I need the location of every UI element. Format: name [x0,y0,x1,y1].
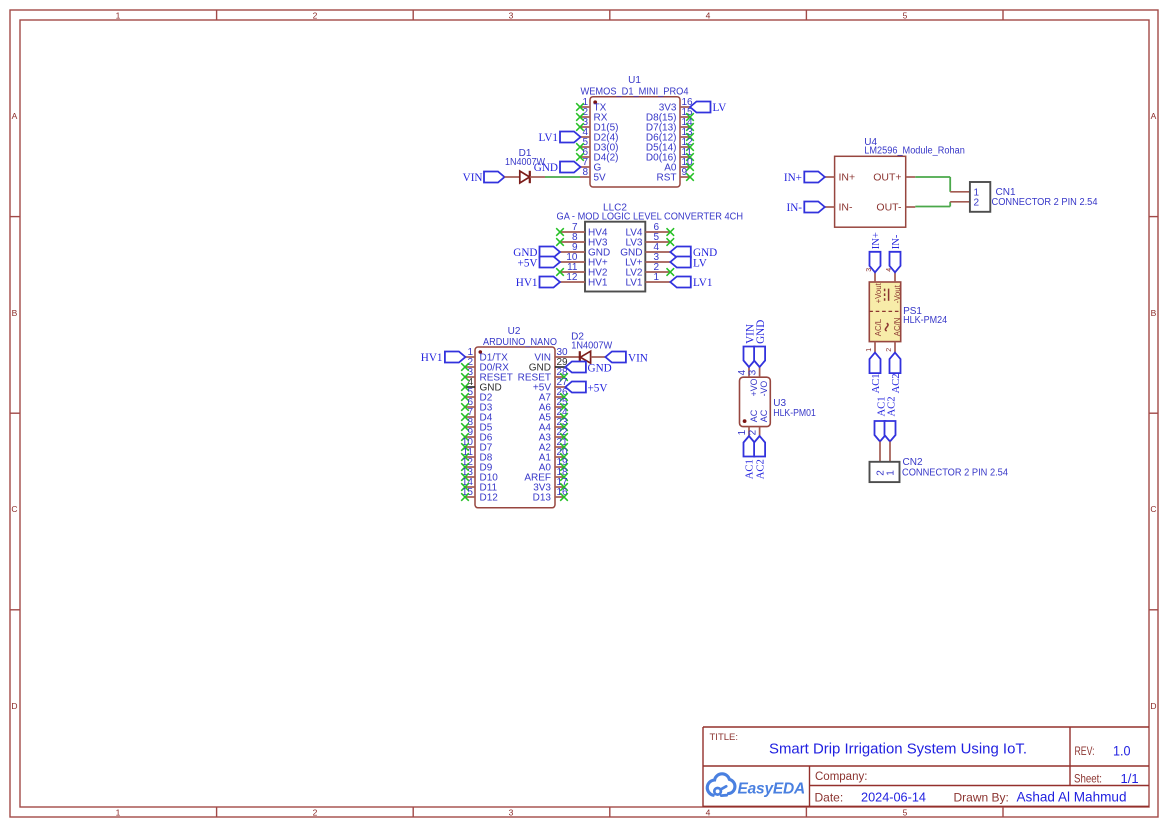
frame column labels bottom [116,808,908,818]
svg-text:5: 5 [903,11,908,21]
svg-text:1N4007W: 1N4007W [505,157,546,168]
U1 pin 14 D7(13) [646,117,694,133]
U1 pin 9 RST [657,167,694,183]
LLC2 pin 4 GND [620,242,670,258]
net flag HV1 at LLC2 pin 12 [516,277,560,290]
svg-text:OUT-: OUT- [876,202,902,214]
svg-text:1/1: 1/1 [1121,771,1139,786]
svg-text:LV1: LV1 [625,278,642,289]
net flag GND above U3 [754,320,767,367]
U3 pin 2 stub [748,427,760,436]
svg-text:C: C [1150,504,1156,514]
svg-text:1: 1 [866,348,873,352]
svg-text:HV1: HV1 [588,278,608,289]
U2 pin 26 A7 [539,387,568,403]
U1 pin 11 D0(16) [646,147,694,163]
svg-text:AC/L: AC/L [874,318,883,336]
U1 pin 3 D1(5) [576,117,618,133]
U2 pin 1 D1/TX [465,347,508,363]
svg-text:C: C [11,504,17,514]
net flag LV1 at LLC2 pin 1 [670,277,712,290]
svg-text:HV1: HV1 [516,277,538,289]
svg-text:2: 2 [974,198,980,209]
power module U3 HLK-PM01 [740,377,817,426]
U1 pin 4 D2(4) [580,127,619,143]
U1 pin 16 3V3 [659,97,693,113]
wire 5V net (green) D1 to U1 pin 8 [545,176,580,178]
U1 pin 13 D6(12) [646,127,694,143]
U2 pin 24 A5 [539,407,568,423]
EasyEDA logo [707,774,805,798]
svg-text:4: 4 [737,369,748,375]
title block [703,727,1149,807]
svg-text:+5V: +5V [588,383,608,395]
PS1 pin 1 stub [866,342,875,353]
net flag +5V at LLC2 pin 10 [518,257,560,270]
svg-text:IN+: IN+ [839,172,856,184]
U2 pin 28 RESET [518,367,568,383]
svg-text:B: B [12,308,18,318]
svg-text:16: 16 [557,487,569,498]
frame row labels right [1150,111,1156,711]
svg-text:AC2: AC2 [755,459,766,479]
net flag LV at LLC2 pin 3 [670,257,707,270]
U2 pin 22 A3 [539,427,568,443]
U1 pin 1 TX [576,97,606,113]
svg-text:-Vout: -Vout [893,284,902,303]
net flag AC1 below PS1 [870,353,883,394]
frame row labels left [11,111,17,711]
svg-text:1: 1 [737,429,748,435]
svg-text:HLK-PM24: HLK-PM24 [903,315,947,326]
LLC2 pin 9 GND [560,242,610,258]
U2 pin 15 D12 [461,487,498,503]
diode D1 1N4007W [505,148,546,183]
U2 pin 11 D8 [461,447,493,463]
LLC2 pin 1 LV1 [625,272,670,288]
U2 pin 21 A2 [539,437,568,453]
U2 pin 18 AREF [524,467,568,483]
U2 pin 20 A1 [539,447,568,463]
diode D2 1N4007W [571,332,613,364]
power module PS1 HLK-PM24 [869,282,947,342]
connector CN1 CONNECTOR 2 PIN 2.54 [970,182,1098,212]
svg-text:2024-06-14: 2024-06-14 [861,791,926,805]
svg-text:REV:: REV: [1075,746,1095,758]
U2 pin 5 D2 [461,387,493,403]
svg-text:D13: D13 [533,493,552,504]
U2 pin 13 D10 [461,467,498,483]
U2 pin 2 D0/RX [461,357,509,373]
wire OUT+ green vertical [949,177,951,192]
U4 pin IN+ [825,172,855,184]
svg-text:Drawn By:: Drawn By: [954,791,1009,805]
svg-text:8: 8 [582,167,588,178]
U2 pin 7 D4 [461,407,493,423]
svg-text:Date:: Date: [815,791,844,805]
svg-text:Smart Drip Irrigation System U: Smart Drip Irrigation System Using IoT. [769,741,1027,758]
U2 pin 6 D3 [461,397,493,413]
net flag LV1 at U1 pin 4 [539,132,581,145]
svg-text:1: 1 [886,470,897,476]
svg-text:AC/N: AC/N [893,318,902,337]
LLC2 pin 7 HV4 [556,222,608,238]
PS1 isolation divider [869,310,900,312]
svg-text:LV1: LV1 [693,277,712,289]
svg-text:LV: LV [693,258,707,270]
svg-text:CONNECTOR 2 PIN 2.54: CONNECTOR 2 PIN 2.54 [992,197,1098,208]
svg-text:U2: U2 [508,326,521,337]
svg-text:2: 2 [886,348,893,352]
svg-text:LV1: LV1 [539,132,558,144]
svg-text:WEMOS_D1_MINI_PRO4: WEMOS_D1_MINI_PRO4 [581,86,689,97]
LLC2 pin 5 LV3 [625,232,674,248]
svg-text:2: 2 [313,11,318,21]
svg-text:+VO: +VO [749,378,759,396]
net flag IN- at U4 [786,202,824,215]
net flag GND at U2 pin 29 [565,362,611,375]
net flag AC2 below U3 [754,436,766,479]
net flag AC1 above CN2 [875,396,888,441]
module U4 LM2596_Module_Rohan [835,137,965,227]
net flag GND at U1 pin 7 [534,162,581,175]
svg-text:D12: D12 [480,493,499,504]
wire D1 cathode (red segment) [530,176,545,178]
svg-text:GND: GND [755,320,767,344]
wire AC1 flag to CN2 pin 2 [879,442,881,462]
svg-text:AC: AC [749,409,759,422]
svg-text:VIN: VIN [463,172,483,184]
U1 pin 6 D4(2) [576,147,618,163]
svg-text:1: 1 [116,808,121,818]
svg-text:4: 4 [706,808,711,818]
svg-text:A: A [1151,111,1157,121]
svg-text:1: 1 [654,272,660,283]
U2 pin 27 +5V [533,377,568,393]
wire D2 anode to VIN flag [591,356,606,358]
svg-text:AC: AC [759,409,769,422]
U1 pin 2 RX [576,107,608,123]
svg-text:AC2: AC2 [886,396,897,416]
LLC2 pin 2 LV2 [625,262,674,278]
svg-text:A: A [12,111,18,121]
wire OUT- green horizontal [915,206,950,208]
svg-text:1N4007W: 1N4007W [571,340,613,351]
svg-text:HV1: HV1 [421,352,443,364]
U2 pin 16 D13 [533,487,568,503]
svg-text:Ashad Al Mahmud: Ashad Al Mahmud [1017,789,1127,805]
svg-text:D: D [11,701,17,711]
svg-text:1: 1 [116,11,121,21]
svg-text:3: 3 [748,369,759,375]
U2 pin 23 A4 [539,417,568,433]
svg-text:+5V: +5V [518,258,538,270]
svg-text:ARDUINO_NANO: ARDUINO_NANO [483,337,557,348]
net flag IN+ above PS1 [870,232,883,272]
U1 pin 8 5V [580,167,606,183]
U2 pin 19 A0 [539,457,568,473]
svg-text:5: 5 [903,808,908,818]
PS1 DC symbol [885,289,889,301]
U4 pin IN- [825,202,853,214]
U2 pin 8 D5 [461,417,493,433]
U2 pin 10 D7 [461,437,493,453]
net flag IN+ at U4 [784,172,825,185]
net flag AC2 above CN2 [885,396,898,441]
U2 pin 30 VIN [534,347,579,363]
net flag VIN above U3 [744,324,757,367]
frame column labels top [116,11,908,21]
U1 pin 7 G [580,157,602,173]
svg-text:9: 9 [682,167,688,178]
U3 pin 1 stub [737,427,749,436]
U2 pin 9 D6 [461,427,493,443]
svg-text:LM2596_Module_Rohan: LM2596_Module_Rohan [864,146,965,157]
wire CN1 pin2 stub [950,201,970,203]
U2 pin 14 D11 [461,477,497,493]
svg-text:EasyEDA: EasyEDA [738,781,806,798]
net flag GND at LLC2 pin 4 [670,247,717,260]
U2 pin 29 GND [529,357,568,373]
svg-text:12: 12 [566,272,578,283]
wire VIN flag to D1 anode [505,176,520,178]
U2 pin 25 A6 [539,397,568,413]
net flag IN- above PS1 [890,234,903,272]
svg-text:IN+: IN+ [784,172,802,184]
svg-text:IN-: IN- [891,234,902,249]
IC U2 ARDUINO_NANO [475,326,557,508]
svg-text:Sheet:: Sheet: [1074,772,1102,786]
svg-text:5V: 5V [594,173,607,184]
U2 pin 12 D9 [461,457,493,473]
module LLC2 GA-MOD logic level converter [557,202,744,291]
svg-text:GA - MOD LOGIC LEVEL CONVERTER: GA - MOD LOGIC LEVEL CONVERTER 4CH [557,212,744,223]
svg-text:3: 3 [509,808,514,818]
svg-text:GND: GND [588,363,612,375]
svg-text:4: 4 [706,11,711,21]
svg-text:+Vout: +Vout [874,282,883,303]
svg-text:LV: LV [713,102,727,114]
net flag GND at LLC2 pin 9 [513,247,560,260]
svg-text:3: 3 [509,11,514,21]
svg-text:CONNECTOR 2 PIN 2.54: CONNECTOR 2 PIN 2.54 [902,467,1008,478]
svg-text:OUT+: OUT+ [873,172,901,184]
PS1 pin 4 stub [886,268,895,282]
svg-text:D: D [1150,701,1156,711]
wire AC2 flag to CN2 pin 1 [889,442,891,462]
wire OUT+ green horizontal [915,176,950,178]
LLC2 pin 10 HV+ [560,252,608,268]
U3 pin 3 stub [748,367,760,377]
U1 pin 10 A0 [664,157,694,173]
svg-text:Company:: Company: [815,771,867,783]
svg-text:IN-: IN- [839,202,854,214]
svg-text:2: 2 [748,429,759,435]
svg-text:VIN: VIN [628,353,648,365]
IC U1 WEMOS_D1_MINI_PRO4 [581,75,689,187]
net flag +5V at U2 pin 27 [565,382,607,395]
net flag AC1 below U3 [744,436,756,479]
U2 pin 3 RESET [461,367,513,383]
svg-text:U1: U1 [628,75,641,86]
net flag VIN (left of D1) [463,172,505,185]
net flag AC2 below PS1 [890,353,903,394]
PS1 AC symbol [885,323,888,331]
LLC2 pin 11 HV2 [556,262,608,278]
U1 pin 5 D3(0) [576,137,618,153]
svg-text:-VO: -VO [759,381,769,397]
U2 pin 4 GND [461,377,502,393]
PS1 pin 2 stub [886,342,895,353]
wire CN1 pin1 stub [950,191,970,193]
svg-text:AC1: AC1 [745,459,756,479]
svg-text:AC2: AC2 [891,373,902,393]
svg-text:1.0: 1.0 [1113,743,1131,759]
svg-text:IN-: IN- [786,202,802,214]
U1 pin 15 D8(15) [646,107,694,123]
svg-text:B: B [1151,308,1157,318]
svg-text:IN+: IN+ [871,232,882,249]
svg-text:AC1: AC1 [871,373,882,393]
svg-text:HLK-PM01: HLK-PM01 [773,408,816,419]
LLC2 pin 6 LV4 [625,222,674,238]
PS1 pin 3 stub [866,268,875,282]
svg-text:TITLE:: TITLE: [710,732,739,743]
LLC2 pin 12 HV1 [560,272,608,288]
svg-text:2: 2 [313,808,318,818]
connector CN2 CONNECTOR 2 PIN 2.54 [870,457,1009,482]
U1 pin 12 D5(14) [646,137,694,153]
net flag LV at U1 pin 16 [690,102,726,115]
U4 pin OUT- [876,202,915,214]
wire OUT- green vertical [949,202,951,207]
net flag VIN at D2 [605,352,647,365]
net flag HV1 at U2 pin 1 [421,352,466,365]
U4 pin OUT+ [873,172,915,184]
svg-text:RST: RST [657,173,677,184]
LLC2 pin 3 LV+ [625,252,670,268]
LLC2 pin 8 HV3 [556,232,608,248]
U2 pin 17 3V3 [533,477,568,493]
U3 pin 4 stub [737,367,749,377]
title block texts [710,732,1139,805]
